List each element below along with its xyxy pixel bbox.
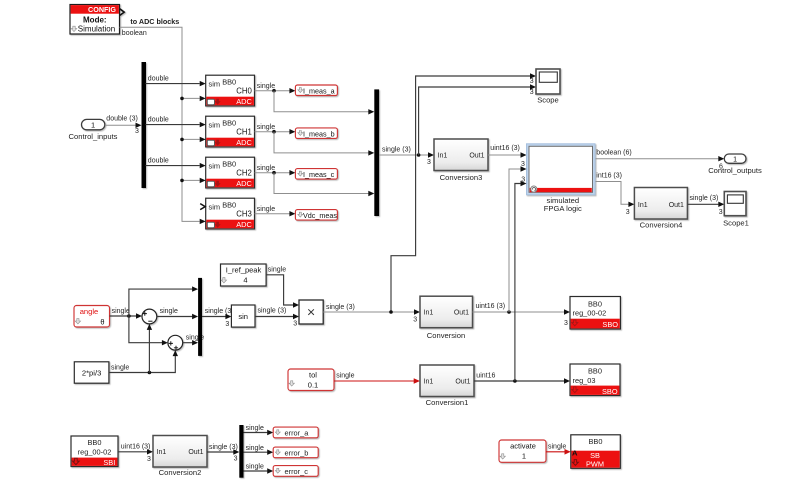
wire Conversion4 out single (3) — [687, 203, 718, 205]
svg-text:Conversion: Conversion — [427, 331, 465, 340]
demux errors — [239, 425, 243, 478]
wire CONFIG boolean net — [120, 27, 200, 221]
wire up to FPGA in3 — [515, 184, 521, 382]
svg-text:error_b: error_b — [285, 449, 309, 458]
svg-text:CH1: CH1 — [236, 127, 252, 136]
svg-text:θ: θ — [100, 318, 104, 327]
svg-text:3: 3 — [147, 456, 151, 463]
svg-text:tol: tol — [309, 370, 317, 379]
svg-text:sim: sim — [209, 202, 221, 211]
svg-text:int16 (3): int16 (3) — [596, 173, 622, 180]
goto error_c — [273, 466, 318, 477]
svg-text:sim: sim — [209, 120, 221, 129]
wire angle out single — [110, 315, 137, 317]
constant I_ref_peak — [221, 264, 267, 286]
svg-text:Control_outputs: Control_outputs — [708, 166, 762, 175]
wire spur to ADC1 ctl — [182, 138, 200, 140]
svg-text:Scope1: Scope1 — [723, 218, 749, 227]
svg-text:single: single — [548, 443, 566, 450]
svg-text:3: 3 — [293, 320, 297, 327]
wire CH2 branch to mux — [274, 173, 369, 194]
wire Conversion out uint16 (3) — [473, 311, 565, 313]
wire tol out single (red) — [334, 380, 414, 382]
svg-text:Scope: Scope — [537, 96, 559, 105]
svg-text:single: single — [112, 308, 130, 315]
svg-text:reg_00-02: reg_00-02 — [78, 448, 112, 457]
wire 2*pi/3 out single — [109, 354, 175, 373]
svg-text:uint16 (3): uint16 (3) — [476, 303, 506, 310]
wire sin out single (3) — [255, 316, 293, 318]
subsystem Conversion3 — [434, 139, 488, 171]
subsystem Conversion — [420, 296, 473, 328]
svg-text:BB0: BB0 — [588, 299, 602, 308]
svg-text:ADC: ADC — [236, 97, 252, 106]
ADC block CH1 — [206, 116, 255, 147]
svg-text:double (3): double (3) — [106, 116, 138, 123]
wire activate out single (red) — [546, 451, 565, 453]
svg-text:single: single — [257, 206, 275, 213]
from tag activate — [499, 440, 546, 462]
goto error_b — [273, 447, 318, 458]
svg-text:Out1: Out1 — [188, 449, 203, 456]
svg-text:Vdc_meas: Vdc_meas — [303, 211, 337, 220]
arrowheads into ADC ctl ports — [200, 96, 206, 101]
svg-text:3: 3 — [564, 320, 568, 327]
wire to Scope input 2 — [419, 87, 531, 155]
svg-text:CH0: CH0 — [236, 86, 252, 95]
svg-text:ADC: ADC — [236, 179, 252, 188]
trig block sin — [231, 305, 255, 327]
svg-text:double: double — [148, 76, 169, 83]
wire ADC CH2 out single — [255, 172, 290, 174]
wire sum1 out single — [157, 316, 193, 318]
svg-text:Simulation: Simulation — [78, 24, 115, 33]
svg-text:double: double — [148, 117, 169, 124]
wire angle branch down to sum2 — [129, 316, 162, 343]
wire CH0 branch to mux — [274, 91, 369, 112]
svg-text:Mode:: Mode: — [83, 16, 107, 25]
wire CH1 branch to mux — [274, 132, 369, 153]
svg-text:1: 1 — [522, 451, 526, 460]
wire spur to ADC0 ctl — [182, 97, 200, 99]
svg-text:3: 3 — [530, 89, 534, 96]
svg-text:single: single — [160, 308, 178, 315]
wire Conversion3 out uint16 (3) — [488, 154, 521, 156]
svg-text:single: single — [257, 83, 275, 90]
svg-text:In1: In1 — [438, 153, 448, 160]
svg-text:I_ref_peak: I_ref_peak — [226, 265, 262, 274]
svg-text:3: 3 — [521, 161, 525, 168]
goto I_meas_a — [295, 85, 337, 96]
ADC block CH0 — [206, 75, 255, 106]
svg-text:BB0: BB0 — [88, 438, 102, 447]
wire mux out single (3) to sin — [202, 316, 226, 318]
wire spur to ADC2 ctl — [182, 179, 200, 181]
subsystem simulated FPGA logic — [527, 144, 596, 195]
svg-text:single: single — [336, 373, 354, 380]
svg-text:3: 3 — [427, 159, 431, 166]
from register BB0 reg_00-02 SBI — [71, 436, 118, 467]
svg-text:In1: In1 — [424, 378, 434, 385]
ADC block CH3 — [206, 198, 255, 229]
wire Conversion2 out single (3) — [207, 451, 234, 453]
constant 2*pi/3 — [74, 362, 109, 383]
wire error_c single — [244, 470, 268, 472]
from tag angle — [74, 306, 110, 328]
subsystem Conversion4 — [634, 188, 687, 220]
wire error_a single — [244, 432, 268, 434]
wire demux out2 double — [146, 124, 200, 126]
wire mux out single (3) — [379, 154, 428, 156]
svg-text:angle: angle — [80, 307, 99, 316]
open input chevron CH3 sim — [200, 204, 205, 210]
svg-text:3: 3 — [225, 321, 229, 328]
svg-text:reg_03: reg_03 — [573, 376, 596, 385]
svg-text:BB0: BB0 — [222, 77, 236, 86]
svg-text:single: single — [268, 266, 286, 273]
goto I_meas_b — [295, 128, 337, 139]
svg-text:BB0: BB0 — [588, 367, 602, 376]
demux (inputs) — [142, 62, 147, 188]
svg-text:double: double — [148, 158, 169, 165]
wire up to FPGA in2 — [509, 169, 521, 312]
svg-text:2*pi/3: 2*pi/3 — [82, 368, 101, 377]
wire I_ref_peak out single — [266, 275, 293, 305]
svg-text:FPGA logic: FPGA logic — [544, 204, 582, 213]
goto register BB0 reg_00-02 SBO — [570, 297, 620, 330]
svg-text:0.1: 0.1 — [308, 380, 318, 389]
svg-text:3: 3 — [530, 78, 534, 85]
svg-text:1: 1 — [733, 156, 737, 163]
svg-text:CONFIG: CONFIG — [88, 5, 116, 14]
svg-text:single: single — [111, 364, 129, 371]
svg-text:In1: In1 — [638, 202, 648, 209]
svg-text:BB0: BB0 — [222, 118, 236, 127]
wire branch up to sum1 minus — [148, 328, 150, 373]
wire ADC CH1 out single — [255, 131, 290, 133]
svg-text:PWM: PWM — [586, 459, 604, 468]
wire sum2 out single — [183, 342, 193, 344]
svg-text:SBO: SBO — [602, 320, 618, 329]
svg-text:sim: sim — [209, 161, 221, 170]
svg-text:Out1: Out1 — [454, 310, 469, 317]
svg-text:single (3): single (3) — [326, 304, 355, 311]
svg-text:error_c: error_c — [285, 467, 309, 476]
config block CONFIG — [70, 5, 124, 35]
svg-text:ADC: ADC — [236, 220, 252, 229]
svg-text:uint16 (3): uint16 (3) — [121, 444, 151, 451]
scope Scope1 — [724, 192, 746, 216]
svg-text:activate: activate — [510, 441, 536, 450]
svg-text:In1: In1 — [157, 449, 167, 456]
svg-text:single: single — [257, 124, 275, 131]
wire demux out1 double — [146, 83, 200, 85]
svg-text:single: single — [257, 165, 275, 172]
svg-text:CH3: CH3 — [236, 209, 252, 218]
goto register BB0 reg_03 SBO — [570, 364, 620, 396]
svg-text:3: 3 — [413, 317, 417, 324]
svg-text:error_a: error_a — [285, 429, 310, 438]
from tag tol — [288, 369, 334, 391]
svg-text:Out1: Out1 — [455, 378, 470, 385]
svg-text:single: single — [246, 463, 264, 470]
wire to Scope input 1 (from multiply net) — [391, 76, 530, 312]
goto error_a — [273, 427, 318, 438]
wire FPGA out2 int16 (3) — [596, 182, 629, 205]
svg-text:Conversion2: Conversion2 — [159, 468, 202, 477]
wire demux out3 double — [146, 165, 200, 167]
junction dots on boolean net — [180, 97, 184, 101]
svg-text:BB0: BB0 — [222, 159, 236, 168]
svg-text:single (3): single (3) — [690, 195, 719, 202]
goto I_meas_c — [295, 169, 337, 180]
svg-text:ADC: ADC — [236, 138, 252, 147]
svg-text:reg_00-02: reg_00-02 — [573, 309, 607, 318]
mux measurements — [374, 89, 379, 216]
svg-text:In1: In1 — [424, 310, 434, 317]
svg-text:1: 1 — [91, 121, 95, 130]
wire SBI out uint16 (3) — [118, 451, 147, 453]
inport Control_inputs — [82, 119, 105, 129]
svg-text:to ADC blocks: to ADC blocks — [130, 17, 179, 26]
outport Control_outputs — [724, 154, 746, 163]
svg-text:single (3): single (3) — [205, 308, 234, 315]
svg-text:sin: sin — [238, 312, 248, 321]
goto Vdc_meas — [295, 210, 337, 221]
svg-text:BB0: BB0 — [589, 437, 603, 446]
svg-text:I_meas_b: I_meas_b — [303, 130, 335, 139]
svg-text:Out1: Out1 — [469, 153, 484, 160]
svg-text:boolean: boolean — [122, 30, 147, 37]
svg-text:A: A — [572, 448, 578, 457]
svg-text:CH2: CH2 — [236, 168, 252, 177]
subsystem Conversion2 — [153, 436, 207, 468]
svg-text:boolean (6): boolean (6) — [596, 150, 631, 157]
svg-text:Conversion4: Conversion4 — [640, 221, 683, 230]
ADC block CH2 — [206, 157, 255, 188]
svg-text:Out1: Out1 — [669, 202, 684, 209]
svg-text:BB0: BB0 — [222, 200, 236, 209]
wire product out single (3) — [323, 311, 414, 313]
wire Control_inputs to demux — [105, 124, 136, 126]
svg-text:3: 3 — [135, 128, 139, 135]
svg-text:3: 3 — [719, 209, 723, 216]
svg-text:3: 3 — [626, 209, 630, 216]
subsystem Conversion1 — [420, 365, 474, 397]
wire FPGA out1 boolean (6) — [596, 158, 719, 160]
product block — [299, 300, 323, 324]
scope Scope — [536, 69, 560, 94]
pwm block BB0 SB PWM — [571, 435, 621, 469]
wire angle branch up to mux in1 — [129, 289, 192, 316]
svg-text:SBI: SBI — [103, 458, 115, 467]
svg-text:uint16 (3): uint16 (3) — [490, 145, 520, 152]
svg-text:uint16: uint16 — [476, 372, 495, 379]
svg-text:SBO: SBO — [602, 387, 618, 396]
wire Conversion1 out uint16 — [474, 380, 564, 382]
mux angle 3-phase — [198, 278, 202, 356]
svg-text:sim: sim — [209, 79, 221, 88]
svg-text:Conversion1: Conversion1 — [426, 398, 469, 407]
svg-text:3: 3 — [234, 456, 238, 463]
wire error_b single — [244, 451, 268, 453]
svg-text:single (3): single (3) — [382, 147, 411, 154]
svg-text:single: single — [246, 445, 264, 452]
svg-text:I_meas_a: I_meas_a — [303, 87, 335, 96]
svg-text:Conversion3: Conversion3 — [440, 173, 483, 182]
wire ADC CH3 out single — [255, 213, 290, 215]
sum block 2 (+ +) — [168, 335, 183, 350]
svg-text:I_meas_c: I_meas_c — [303, 170, 335, 179]
svg-text:4: 4 — [243, 275, 247, 284]
svg-text:single: single — [246, 425, 264, 432]
sum block 1 (+ -) — [142, 309, 157, 324]
svg-text:single (3): single (3) — [258, 307, 287, 314]
svg-text:Control_inputs: Control_inputs — [69, 132, 118, 141]
wire ADC CH0 out single — [255, 90, 290, 92]
